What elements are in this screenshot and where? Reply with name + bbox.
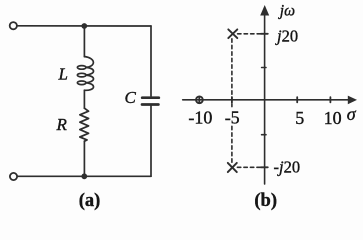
svg-text:(a): (a) — [79, 191, 101, 211]
sigma axis — [183, 99, 351, 101]
wire junction to inductor — [83, 26, 85, 57]
tick 5 — [296, 97, 298, 102]
sigma axis arrowhead — [348, 96, 357, 105]
tick j20 — [261, 33, 268, 35]
tick -5 — [231, 97, 233, 103]
tick j10 — [262, 67, 266, 69]
wire resistor to bottom — [83, 141, 85, 176]
wire top — [17, 25, 151, 27]
pole X top — [228, 29, 237, 38]
terminal top-left — [10, 22, 17, 29]
svg-text:-5: -5 — [225, 108, 240, 128]
svg-text:10: 10 — [324, 108, 342, 128]
svg-text:σ: σ — [347, 104, 357, 124]
resistor R — [80, 108, 89, 141]
svg-text:L: L — [58, 65, 68, 84]
wire right branch down to capacitor — [150, 26, 152, 96]
capacitor C bottom plate — [142, 103, 158, 106]
jw axis arrowhead — [260, 5, 269, 16]
svg-text:jω: jω — [278, 2, 295, 19]
tick 10 — [329, 97, 331, 102]
tick -j10 — [262, 134, 266, 136]
wire bottom — [17, 175, 151, 177]
tick -10 — [198, 97, 200, 103]
node top junction — [81, 23, 87, 29]
svg-text:j20: j20 — [275, 27, 298, 46]
wire inductor to resistor — [83, 90, 85, 108]
jw axis — [264, 11, 266, 184]
dashed line pole to pole vertical lower — [231, 126, 233, 162]
inductor L — [77, 57, 93, 91]
svg-text:C: C — [125, 88, 137, 107]
svg-text:R: R — [56, 115, 68, 134]
dashed line pole to jw axis top — [238, 33, 263, 35]
tick -j20 — [261, 166, 268, 168]
terminal bottom-left — [10, 173, 17, 180]
svg-text:-j20: -j20 — [274, 157, 301, 176]
capacitor C top plate — [142, 96, 159, 99]
dashed line pole to pole vertical upper — [231, 39, 233, 107]
svg-text:(b): (b) — [254, 191, 277, 211]
zero circle at -10 — [196, 96, 203, 103]
wire capacitor to bottom corner — [150, 106, 152, 176]
svg-text:5: 5 — [295, 108, 304, 128]
pole X bottom — [228, 163, 237, 172]
svg-text:-10: -10 — [188, 108, 212, 128]
node bottom junction — [81, 173, 87, 179]
dashed line pole to jw axis bottom — [237, 166, 262, 168]
